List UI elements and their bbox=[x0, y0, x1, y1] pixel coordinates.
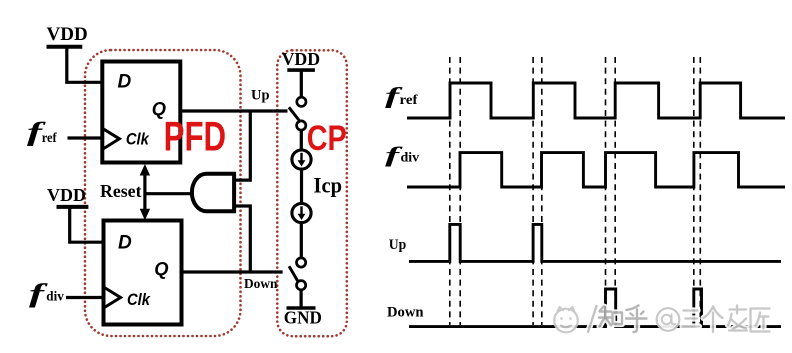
AND gate U3 (mirrored, output left) bbox=[192, 174, 234, 212]
svg-text:D: D bbox=[118, 72, 132, 93]
svg-text:Clk: Clk bbox=[126, 130, 150, 149]
VDD rail bar (top, PFD) bbox=[47, 45, 83, 49]
wire Q2 (Down) to switch bbox=[182, 270, 283, 273]
svg-text:ref: ref bbox=[400, 93, 418, 108]
D flip-flop U2 (bottom) bbox=[104, 221, 182, 325]
switch S1 blade bbox=[289, 107, 301, 122]
marker dashed line pair 3 bbox=[605, 57, 607, 325]
U2 clock triangle bbox=[104, 287, 121, 308]
svg-text:Down: Down bbox=[387, 305, 424, 321]
svg-text:Up: Up bbox=[389, 237, 407, 253]
wire AND output to reset line bbox=[145, 192, 193, 195]
watermark bbox=[554, 306, 769, 333]
U1 clock triangle bbox=[102, 128, 119, 149]
switch S2 blade bbox=[289, 266, 299, 282]
svg-text:ref: ref bbox=[42, 131, 57, 146]
wire VDD to FF2 D bbox=[70, 207, 104, 242]
marker dashed line pair 4 bbox=[693, 57, 695, 325]
reset double-headed arrow bbox=[143, 172, 146, 213]
timing: Up waveform bbox=[409, 224, 781, 261]
switch S1 bottom contact bbox=[297, 121, 306, 130]
svg-text:Icp: Icp bbox=[314, 172, 343, 197]
wire VDD to FF1 D bbox=[67, 47, 103, 83]
svg-text:Down: Down bbox=[244, 277, 278, 292]
marker dashed line pair 1 bbox=[449, 57, 451, 325]
svg-text:Q: Q bbox=[154, 258, 168, 279]
svg-text:CP: CP bbox=[307, 119, 347, 158]
wire S2 to GND bbox=[300, 290, 303, 308]
svg-text:GND: GND bbox=[284, 308, 322, 328]
timing: f_ref waveform bbox=[407, 83, 785, 118]
wire I1 to I2 bbox=[300, 169, 303, 203]
current source I1 bbox=[292, 150, 311, 169]
wire Up line to AND top input bbox=[234, 111, 250, 180]
VDD rail bar (bottom, PFD) bbox=[57, 205, 89, 209]
svg-text:Up: Up bbox=[251, 88, 270, 104]
svg-text:VDD: VDD bbox=[47, 185, 86, 205]
switch S1 (Up) top contact bbox=[297, 97, 306, 106]
wire Down line to AND bottom input bbox=[234, 206, 250, 272]
svg-text:div: div bbox=[46, 288, 64, 303]
VDD rail bar (CP) bbox=[287, 68, 315, 72]
svg-text:Clk: Clk bbox=[127, 290, 151, 309]
svg-text:VDD: VDD bbox=[47, 24, 88, 45]
switch S2 (Down) top contact bbox=[297, 258, 306, 267]
GND bar bbox=[287, 306, 316, 310]
svg-text:Reset: Reset bbox=[100, 181, 142, 201]
switch S2 bottom contact bbox=[297, 281, 306, 290]
PFD dashed enclosure bbox=[85, 50, 241, 336]
wire VDD to switch S1 bbox=[300, 70, 303, 97]
current source I2 bbox=[292, 203, 311, 222]
timing: f_div waveform bbox=[407, 153, 785, 187]
D flip-flop U1 (top) bbox=[102, 62, 180, 163]
wire Q1 (Up) to switch bbox=[180, 109, 287, 112]
CP dashed enclosure bbox=[277, 50, 347, 336]
svg-text:div: div bbox=[401, 150, 420, 165]
svg-text:PFD: PFD bbox=[164, 113, 227, 160]
wire f_div to FF2 Clk bbox=[66, 296, 104, 299]
wire S1 to current source I1 bbox=[300, 130, 303, 150]
wire I2 to switch S2 bbox=[300, 223, 303, 258]
wire f_ref to FF1 Clk bbox=[68, 136, 103, 139]
marker dashed line pair 2 bbox=[532, 57, 534, 325]
svg-text:VDD: VDD bbox=[282, 49, 321, 69]
timing: Down waveform bbox=[409, 289, 781, 327]
svg-text:D: D bbox=[118, 232, 132, 253]
